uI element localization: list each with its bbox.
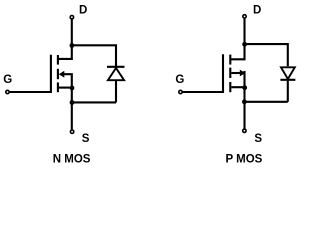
channel middle segment (P MOS): [229, 68, 231, 78]
wire source vertical (P MOS): [243, 71, 245, 129]
svg-text:S: S: [254, 133, 262, 145]
wire body stub + source vertical (N MOS): [64, 74, 72, 129]
body arrow (P MOS, points right): [240, 70, 246, 77]
svg-text:S: S: [82, 133, 90, 145]
gate lead + gate bar (N MOS): [10, 55, 51, 92]
channel top segment (N MOS): [57, 55, 59, 65]
wire body stub (P MOS): [231, 72, 240, 74]
terminal G (N MOS): [6, 90, 9, 93]
terminal D (N MOS): [70, 16, 73, 19]
svg-text:D: D: [79, 5, 87, 17]
node drain junction dot (P MOS): [242, 42, 247, 47]
svg-text:G: G: [3, 74, 12, 86]
terminal S (N MOS): [70, 130, 73, 133]
node bottom rail dot (N MOS): [70, 100, 75, 105]
diode anode-side bar (P MOS body diode): [280, 79, 295, 81]
node source stub dot (P MOS): [242, 85, 247, 90]
wire diode bottom lead (P MOS): [287, 81, 289, 102]
body arrow (N MOS, points left): [59, 71, 65, 78]
terminal D (P MOS): [243, 15, 246, 18]
wire top rail to diode (P MOS): [245, 44, 288, 66]
wire drain vertical + drain stub (P MOS): [230, 19, 244, 60]
wire drain vertical + drain stub (N MOS): [58, 19, 72, 59]
diode cathode bar (N MOS body diode): [107, 66, 125, 68]
channel top segment (P MOS): [229, 55, 231, 65]
terminal S (P MOS): [243, 129, 246, 132]
wire bottom rail (P MOS): [245, 101, 288, 103]
wire top rail to diode (N MOS): [72, 45, 116, 67]
svg-text:G: G: [175, 74, 184, 86]
diode triangle (P MOS body diode, points down): [281, 67, 295, 79]
wire diode bottom lead (N MOS): [115, 80, 117, 102]
gate lead + gate bar (P MOS): [183, 54, 223, 92]
wire bottom rail (N MOS): [72, 101, 116, 103]
svg-text:N MOS: N MOS: [53, 154, 91, 166]
wire source stub (P MOS): [231, 86, 244, 88]
wire source stub (N MOS): [59, 87, 72, 89]
diode triangle (N MOS body diode): [108, 68, 124, 80]
node drain junction dot (N MOS): [70, 43, 75, 48]
terminal G (P MOS): [179, 90, 182, 93]
svg-text:P MOS: P MOS: [225, 154, 262, 166]
channel bottom segment (N MOS): [57, 82, 59, 92]
channel middle segment (N MOS): [57, 69, 59, 79]
channel bottom segment (P MOS): [229, 82, 231, 92]
node bottom rail dot (P MOS): [242, 99, 247, 104]
svg-text:D: D: [253, 4, 261, 16]
node source stub dot (N MOS): [70, 86, 75, 91]
